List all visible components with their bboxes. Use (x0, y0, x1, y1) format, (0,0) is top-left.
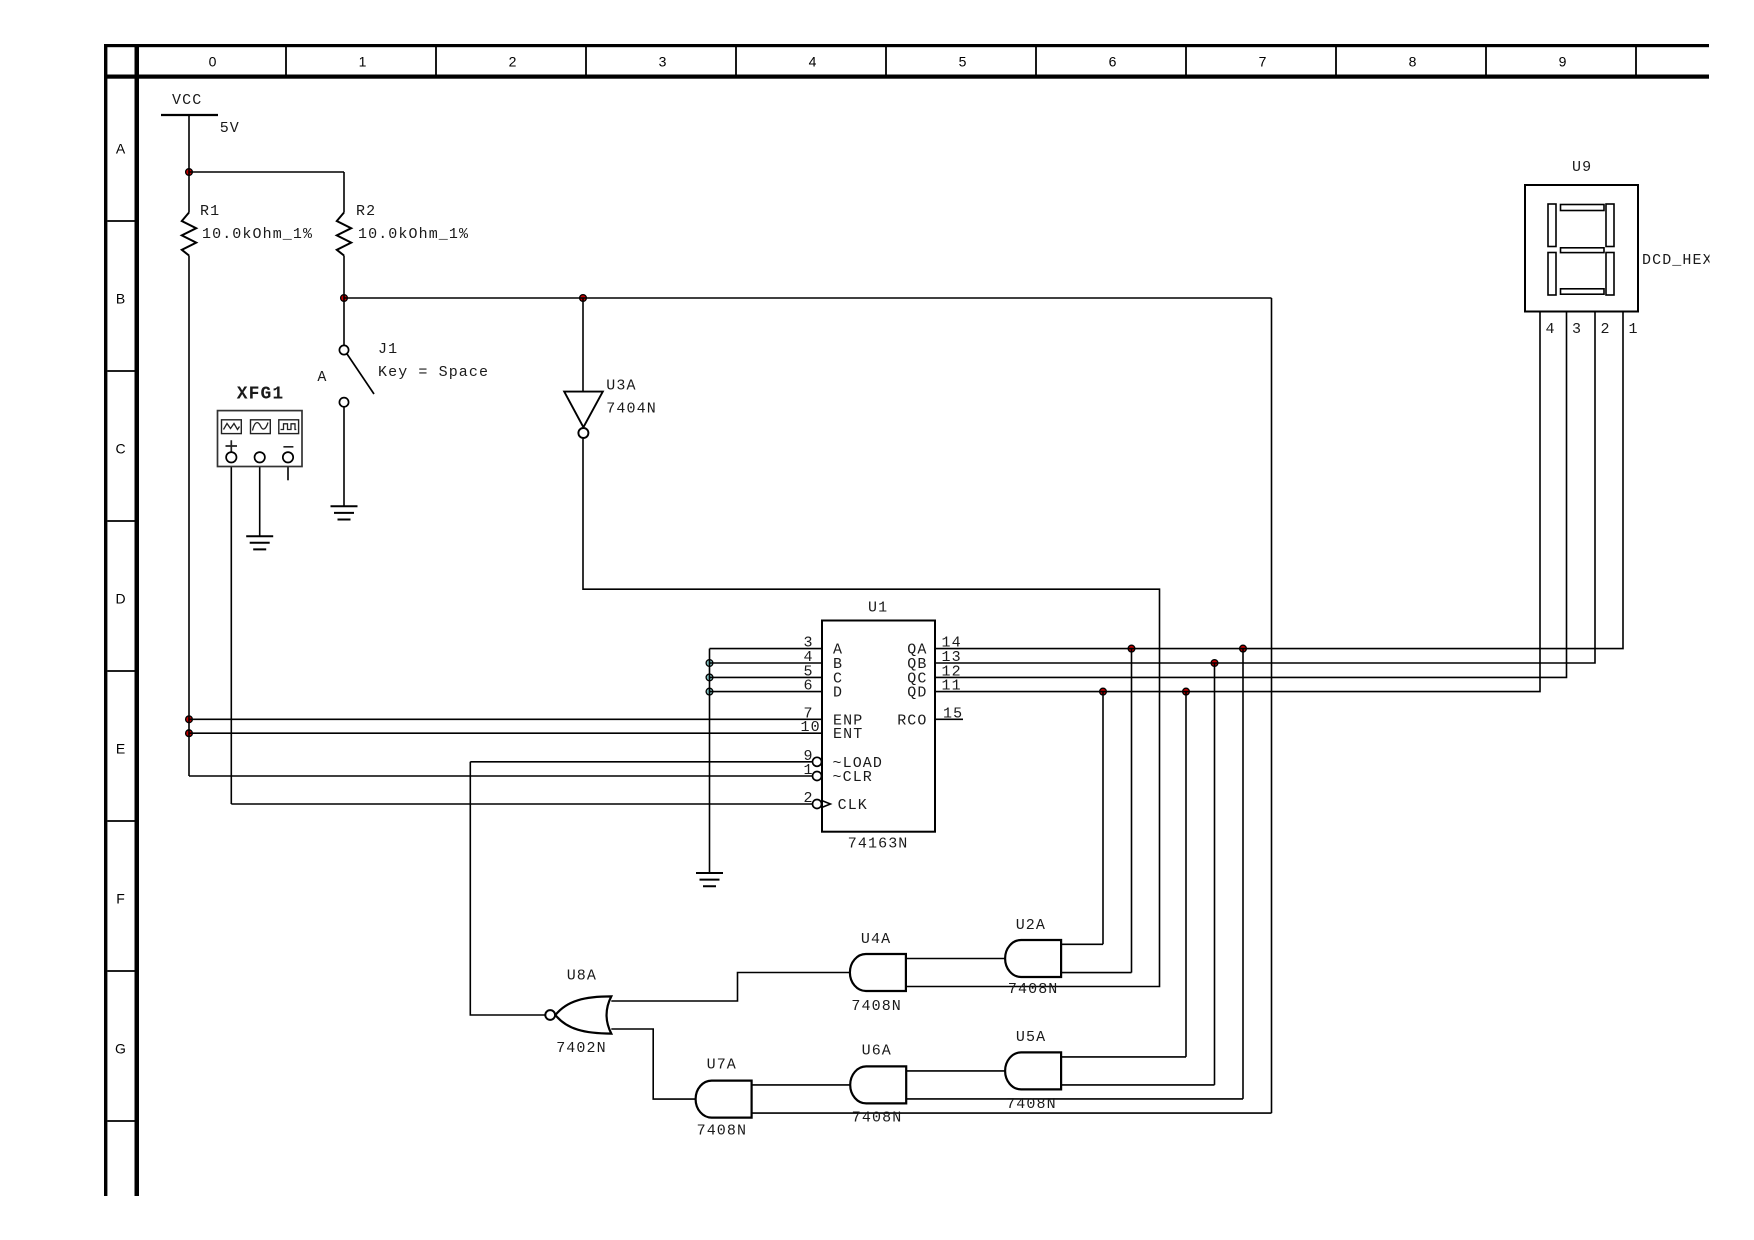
svg-text:U5A: U5A (1016, 1029, 1046, 1046)
svg-text:1: 1 (359, 54, 367, 70)
svg-text:~CLR: ~CLR (833, 769, 873, 786)
svg-text:3: 3 (659, 54, 667, 70)
svg-text:VCC: VCC (172, 92, 202, 109)
svg-text:2: 2 (804, 790, 814, 807)
svg-text:U6A: U6A (862, 1043, 892, 1060)
svg-text:R2: R2 (356, 203, 376, 220)
svg-text:10.0kOhm_1%: 10.0kOhm_1% (358, 226, 469, 243)
svg-text:7402N: 7402N (556, 1040, 607, 1057)
svg-text:RCO: RCO (897, 712, 927, 729)
svg-text:7408N: 7408N (851, 998, 902, 1015)
svg-text:DCD_HEX: DCD_HEX (1642, 252, 1713, 269)
svg-text:5: 5 (959, 54, 967, 70)
svg-text:6: 6 (804, 678, 814, 695)
svg-text:A: A (317, 369, 327, 386)
svg-text:11: 11 (942, 678, 962, 695)
svg-text:15: 15 (943, 705, 963, 722)
svg-text:2: 2 (509, 54, 517, 70)
svg-text:B: B (116, 290, 125, 306)
svg-text:7: 7 (1259, 54, 1267, 70)
svg-text:U2A: U2A (1016, 917, 1046, 934)
svg-text:1: 1 (1629, 321, 1639, 338)
svg-text:CLK: CLK (838, 797, 868, 814)
svg-text:U4A: U4A (861, 931, 891, 948)
svg-text:6: 6 (1109, 54, 1117, 70)
svg-text:10.0kOhm_1%: 10.0kOhm_1% (202, 226, 313, 243)
svg-text:1: 1 (804, 762, 814, 779)
svg-text:4: 4 (809, 54, 817, 70)
svg-text:2: 2 (1601, 321, 1611, 338)
svg-text:3: 3 (1572, 321, 1582, 338)
svg-text:7408N: 7408N (1006, 1096, 1057, 1113)
svg-text:U9: U9 (1572, 159, 1592, 176)
svg-text:C: C (115, 440, 125, 456)
svg-text:A: A (116, 140, 126, 156)
svg-text:7404N: 7404N (606, 401, 657, 418)
svg-text:U7A: U7A (707, 1056, 737, 1073)
svg-text:4: 4 (1546, 321, 1556, 338)
svg-text:G: G (115, 1040, 126, 1056)
svg-text:74163N: 74163N (848, 836, 909, 853)
svg-text:F: F (116, 890, 125, 906)
svg-text:R1: R1 (200, 203, 220, 220)
svg-text:Key = Space: Key = Space (378, 364, 489, 381)
svg-text:E: E (116, 740, 125, 756)
svg-text:QD: QD (907, 685, 927, 702)
svg-text:D: D (115, 590, 125, 606)
svg-text:7408N: 7408N (852, 1109, 903, 1126)
svg-text:10: 10 (801, 719, 821, 736)
svg-text:XFG1: XFG1 (237, 384, 285, 404)
svg-text:7408N: 7408N (1008, 981, 1059, 998)
svg-text:U3A: U3A (606, 377, 636, 394)
svg-text:J1: J1 (378, 341, 398, 358)
svg-text:D: D (833, 685, 843, 702)
svg-text:8: 8 (1409, 54, 1417, 70)
svg-text:U1: U1 (868, 600, 888, 617)
svg-text:0: 0 (209, 54, 217, 70)
svg-text:7408N: 7408N (697, 1123, 748, 1140)
svg-text:ENT: ENT (833, 726, 863, 743)
svg-text:U8A: U8A (567, 968, 597, 985)
svg-text:9: 9 (1559, 54, 1567, 70)
svg-text:5V: 5V (220, 120, 240, 137)
